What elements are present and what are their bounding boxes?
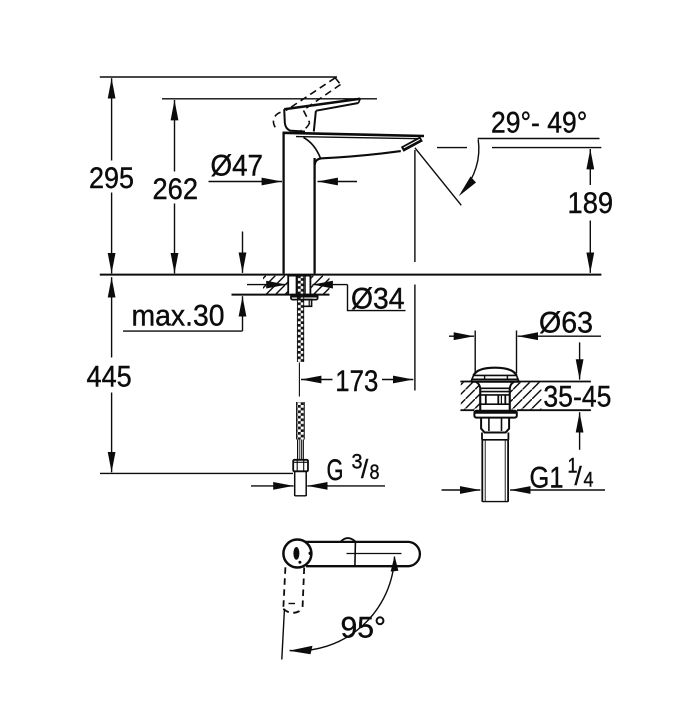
drain: extension lines Ø63	[475, 331, 516, 374]
drain transition ring	[482, 433, 508, 440]
washer and fitting under countertop	[291, 295, 318, 307]
svg-text:445: 445	[87, 360, 132, 393]
drain body in hole	[476, 382, 514, 410]
hose nut G3/8	[293, 460, 308, 472]
extension line top of faucet (295)	[100, 76, 337, 78]
handle top view: lever	[305, 538, 420, 566]
angle extension line 95	[282, 610, 285, 660]
handle top view: pivot cap	[283, 540, 312, 568]
mounting shank through countertop	[288, 276, 310, 295]
dimension Ø47	[209, 150, 358, 183]
svg-text:Ø34: Ø34	[351, 283, 405, 316]
svg-text:G1: G1	[530, 461, 564, 494]
svg-text:max.30: max.30	[132, 300, 225, 333]
svg-text:Ø47: Ø47	[211, 150, 264, 183]
svg-text:95°: 95°	[341, 611, 387, 644]
svg-text:35-45: 35-45	[543, 380, 611, 413]
svg-text:4: 4	[584, 468, 594, 491]
handle top view: rotated position (dashed)	[283, 567, 304, 613]
svg-text:8: 8	[370, 461, 380, 484]
dimension Ø34 with leader	[247, 283, 406, 316]
svg-text:/: /	[575, 461, 583, 491]
extension line 189 top	[437, 147, 601, 149]
svg-text:Ø63: Ø63	[539, 306, 593, 339]
handle raised (dashed)	[273, 78, 340, 131]
svg-text:/: /	[361, 454, 369, 484]
dimension G3/8	[251, 450, 385, 487]
drain washer under countertop	[474, 411, 516, 418]
centerline of faucet (axis)	[298, 363, 300, 397]
angle label 29-49 leader	[478, 107, 600, 140]
extension line top of lever (262)	[162, 98, 377, 100]
hose end tube	[298, 440, 304, 460]
countertop (section)	[100, 275, 602, 295]
dimension max.30	[123, 232, 243, 333]
dimension 35-45	[543, 342, 611, 449]
dimension 173	[301, 365, 413, 398]
dimension Ø63	[449, 306, 601, 339]
handle lever (solid, lowered)	[284, 99, 360, 132]
hose pipe end	[295, 471, 307, 496]
drain tailpipe	[482, 440, 508, 502]
drain locknut	[481, 418, 509, 433]
drain countertop (section)	[460, 382, 591, 411]
svg-text:189: 189	[568, 187, 614, 220]
svg-text:173: 173	[335, 365, 378, 398]
dimension 445	[87, 277, 132, 472]
angle arc 29-49 with arrowhead	[459, 140, 479, 197]
dimension 189	[568, 149, 614, 273]
dimension G1 1/4	[442, 455, 606, 495]
flexible hose (braided)	[297, 402, 305, 440]
angle arc 95 with arrowheads	[289, 556, 399, 654]
aerator	[402, 139, 421, 150]
dimension 295	[89, 78, 134, 273]
faucet body	[284, 133, 321, 274]
svg-text:29°- 49°: 29°- 49°	[491, 107, 587, 140]
svg-text:G: G	[327, 454, 344, 487]
faucet spout	[283, 133, 425, 165]
angle label 95	[341, 611, 387, 644]
extension line from aerator (vertical)	[414, 150, 416, 391]
water stream leader line	[415, 148, 461, 206]
dimension 262	[153, 100, 199, 273]
svg-text:262: 262	[153, 173, 199, 206]
drain cap (dome)	[471, 368, 519, 382]
threaded rod	[297, 276, 303, 362]
extension line 445 bottom	[100, 472, 293, 474]
svg-text:295: 295	[89, 162, 134, 195]
